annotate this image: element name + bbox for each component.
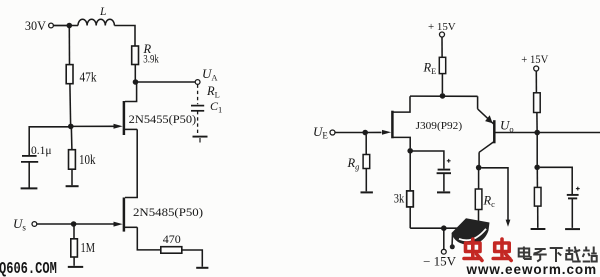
terminal 30V (49, 23, 54, 28)
ground 0.1u (21, 187, 38, 189)
capacitor 0.1u (21, 145, 52, 162)
label +15V (RE supply) (428, 21, 456, 33)
wire 30V terminal to node A (54, 25, 68, 27)
svg-text:470: 470 (163, 232, 181, 246)
wire node B to UA terminal (138, 81, 195, 83)
svg-text:10k: 10k (79, 152, 96, 167)
terminal +15V (RE) (440, 32, 445, 37)
watermark red characters chong-chong (464, 239, 511, 261)
wire node A to inductor (69, 25, 78, 27)
wire drain bus (410, 95, 478, 97)
resistor 470 (161, 232, 182, 253)
wire UB terminal to node D (37, 223, 71, 225)
wire node F to bypass capacitor (413, 151, 444, 169)
wire RE to node H (441, 74, 443, 94)
wire R to node B (134, 65, 136, 81)
wire UE terminal to node E (335, 132, 363, 134)
svg-text:Rc: Rc (483, 194, 496, 210)
wire Q2 source down to 470 (137, 227, 161, 250)
label UA (202, 66, 218, 83)
wire node D to Q2 gate (74, 223, 114, 225)
label 30V supply (25, 18, 47, 33)
svg-text:Us: Us (13, 216, 26, 233)
svg-text:+ 15V: + 15V (521, 52, 548, 66)
node C junction (68, 124, 74, 130)
wire R2 to ground (537, 206, 539, 228)
wire +15V terminal to RE (441, 37, 443, 57)
ground C2 (437, 191, 450, 193)
wire node I to node K (536, 135, 538, 165)
wire node E to J309 gate (365, 131, 381, 133)
JFET Q2 2N5485 (114, 198, 204, 232)
dashed wire C1 to ground (197, 111, 199, 136)
wire node A down to 47k (68, 27, 70, 65)
wire node K to capacitor C3 (540, 167, 572, 194)
watermark graduation cap (450, 218, 490, 249)
wire node F down to 3k (409, 153, 411, 191)
wire node G to -15V terminal (443, 228, 445, 249)
watermark Q606.COM (0, 260, 57, 277)
resistor 3k (394, 190, 414, 207)
node E junction (362, 130, 368, 136)
label UE input (313, 124, 328, 141)
transistor Q3 (PNP) (478, 96, 495, 165)
wire node C to Q1 gate (71, 125, 114, 127)
svg-text:2N5455(P50): 2N5455(P50) (129, 112, 197, 126)
arrow down branch (506, 220, 511, 227)
JFET Q1 2N5455 (114, 82, 197, 135)
svg-text:Q606.COM: Q606.COM (0, 260, 57, 277)
svg-text:J309(P92): J309(P92) (416, 120, 463, 132)
svg-text:3k: 3k (394, 190, 405, 205)
wire node K to R2 (536, 170, 538, 187)
wire Q1 source to Q2 drain (125, 129, 137, 197)
svg-text:47k: 47k (80, 70, 97, 85)
dashed wire UA to C1 (197, 85, 199, 105)
ground Rg (361, 191, 373, 193)
wire -15V bus (410, 227, 478, 229)
watermark text dianzi-xiazaizhan (519, 247, 597, 263)
label -15V (423, 254, 456, 268)
resistor 1M (71, 239, 95, 257)
svg-text:+ 15V: + 15V (428, 21, 456, 33)
wire output Uo (496, 132, 600, 134)
node B junction (133, 79, 139, 85)
wire inductor to resistor R (114, 26, 135, 47)
svg-text:Rg: Rg (347, 156, 360, 172)
watermark url www.eeworm.com (466, 262, 598, 277)
resistor R 3.9k (132, 42, 159, 66)
svg-text:L: L (99, 6, 106, 18)
JFET J309 (382, 96, 462, 148)
svg-text:2N5485(P50): 2N5485(P50) (133, 205, 203, 219)
label +15V (right supply) (521, 52, 548, 66)
wire 1M to ground (73, 257, 75, 266)
terminal UE (330, 130, 335, 135)
wire 3k to -15V bus (409, 207, 411, 228)
node J junction (emitter) (476, 165, 482, 171)
svg-text:UA: UA (202, 66, 218, 83)
node I junction (output) (534, 130, 540, 136)
wire node E down to Rg (365, 135, 367, 155)
wire C3 to ground (571, 199, 573, 228)
resistor 10k (69, 150, 96, 170)
svg-text:RE: RE (423, 61, 437, 77)
node H junction (drain bus) (440, 93, 446, 99)
ground 470 (196, 267, 208, 269)
ground 10k (66, 185, 79, 187)
inductor L (78, 6, 114, 26)
svg-text:Uo: Uo (500, 118, 514, 135)
node K junction (534, 165, 540, 171)
wire node J to Rc (478, 170, 480, 189)
node G junction (-15V) (441, 225, 447, 231)
wire node C down to 10k (70, 129, 73, 150)
wire 470 to ground (182, 250, 203, 267)
resistor Rc (475, 189, 495, 210)
resistor R2 (lower right) (534, 187, 541, 206)
wire node D down to 1M (73, 227, 75, 239)
wire 10k to ground (71, 169, 73, 185)
label Uo (500, 118, 514, 135)
svg-text:C1: C1 (210, 99, 222, 115)
wire node C left to capacitor 0.1u (29, 127, 71, 155)
wire C2 to ground (443, 173, 445, 191)
capacitor C2 (bypass) (437, 159, 451, 173)
ground R2 (531, 228, 546, 230)
capacitor C1 (191, 99, 222, 115)
label UB input (13, 216, 26, 233)
svg-text:30V: 30V (25, 18, 47, 33)
wire R1 to node I (536, 113, 538, 131)
svg-text:1M: 1M (81, 240, 96, 255)
resistor RE (423, 57, 446, 76)
svg-text:0.1μ: 0.1μ (31, 145, 52, 157)
svg-text:− 15V: − 15V (423, 254, 456, 268)
node A junction (67, 23, 73, 29)
resistor Rg (347, 155, 370, 172)
svg-text:3.9k: 3.9k (143, 52, 159, 66)
wire +15V to R1 (535, 71, 537, 93)
label RL (206, 84, 220, 100)
wire 0.1u to ground (28, 162, 30, 188)
terminal UB (32, 222, 37, 227)
terminal UA (195, 80, 200, 85)
terminal +15V right (534, 66, 539, 71)
capacitor C3 (output electrolytic) (567, 187, 580, 199)
wire Rg to ground (365, 169, 367, 192)
wire node J to down-arrow branch (481, 168, 508, 221)
svg-text:UE: UE (313, 124, 328, 141)
ground 1M (68, 266, 83, 268)
svg-text:RL: RL (206, 84, 220, 100)
resistor 47k (66, 65, 97, 85)
ground C3 (565, 228, 580, 230)
terminal -15V (441, 249, 446, 254)
svg-text:www.eeworm.com: www.eeworm.com (466, 262, 598, 277)
node D junction (71, 221, 77, 227)
node F junction (J309 source) (407, 148, 413, 154)
ground (load) (193, 137, 208, 143)
wire 47k to node C (69, 84, 72, 124)
resistor R1 (upper right) (534, 93, 541, 113)
wire Rc to -15V bus (478, 210, 480, 229)
